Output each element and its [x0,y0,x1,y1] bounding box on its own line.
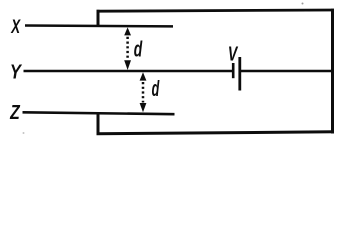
plate X [25,24,173,27]
dashed spacing arrow between Y and Z [140,72,147,112]
paper speck [23,132,25,134]
wire riser from plate X to top rail [97,10,100,27]
svg-text:Z: Z [9,100,20,124]
svg-text:Y: Y [10,60,22,83]
right wire rail [331,9,334,134]
wire descender from plate Z to bottom rail [97,113,100,135]
wire from battery to right rail [240,70,333,73]
svg-text:V: V [228,42,238,65]
svg-text:X: X [10,17,21,38]
paper speck [302,3,304,5]
top wire rail [97,10,335,11]
bottom wire rail [97,132,335,134]
svg-text:d: d [134,36,143,61]
dashed spacing arrow between X and Y [124,27,131,70]
svg-text:d: d [152,76,160,101]
plate Y (left wire segment) [24,70,234,73]
battery cell: long plate [238,57,241,91]
battery cell: short plate [232,63,235,78]
plate Z [23,112,175,114]
